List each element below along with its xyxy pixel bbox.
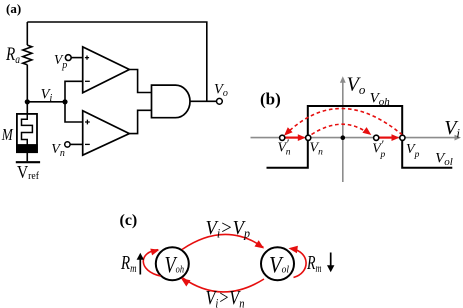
svg-text:(c): (c) — [120, 212, 138, 229]
svg-text:(a): (a) — [6, 1, 21, 16]
svg-text:Vi>Vn: Vi>Vn — [206, 287, 245, 308]
svg-text:(b): (b) — [260, 90, 281, 109]
svg-text:Vi>Vp: Vi>Vp — [206, 217, 251, 241]
svg-text:M: M — [1, 125, 13, 144]
